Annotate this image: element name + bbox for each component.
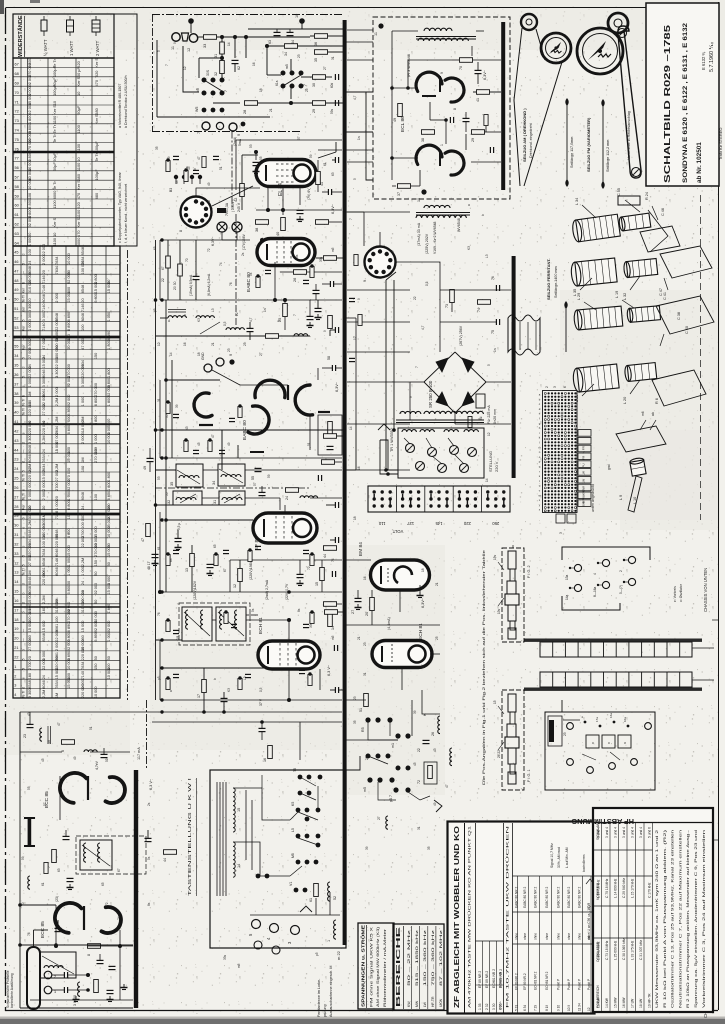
- capacitor 62: [232, 59, 239, 61]
- parts list header WIDERSTAENDE: [13, 14, 114, 58]
- resistor 41: [316, 172, 321, 185]
- svg-text:2 000: 2 000: [42, 491, 46, 501]
- resistor symbol 1 WATT: [69, 16, 71, 20]
- chassis side view upper: [524, 639, 702, 642]
- trimmer caps: [259, 491, 266, 493]
- svg-text:22: 22: [14, 655, 18, 659]
- svg-text:69: 69: [15, 81, 19, 86]
- svg-text:a: a: [169, 690, 173, 692]
- wire: [159, 640, 161, 700]
- svg-text:13v: 13v: [497, 608, 501, 614]
- svg-text:5: 5: [157, 50, 161, 52]
- svg-text:1 000: 1 000: [81, 397, 85, 407]
- svg-text:Für 225 mA: Für 225 mA: [487, 405, 491, 424]
- svg-text:220 000: 220 000: [81, 364, 85, 378]
- svg-text:59: 59: [21, 856, 25, 860]
- svg-text:BEREICHE: BEREICHE: [396, 925, 402, 1007]
- svg-text:5s: 5s: [251, 608, 255, 612]
- wire: [221, 232, 223, 240]
- resistor: [184, 171, 188, 182]
- svg-text:EL 84: EL 84: [278, 183, 284, 196]
- svg-text:Seillänge 112,2 mm: Seillänge 112,2 mm: [606, 140, 610, 172]
- svg-text:1 WATT: 1 WATT: [69, 40, 74, 56]
- capacitor 27c: [355, 597, 362, 599]
- wire: [19, 712, 21, 770]
- svg-text:ECH81 NR 2: ECH81 NR 2: [492, 969, 496, 988]
- capacitor: [229, 417, 235, 419]
- junction dots: [266, 208, 270, 212]
- svg-text:10 000: 10 000: [67, 253, 71, 265]
- svg-text:UKW: UKW: [439, 998, 443, 1007]
- band switch row: [250, 914, 340, 916]
- schematic dash frame: [152, 14, 344, 16]
- svg-text:T5: T5: [293, 768, 297, 772]
- svg-text:62: 62: [237, 66, 241, 70]
- svg-text:Ker S: Ker S: [94, 58, 99, 68]
- svg-text:33s: 33s: [319, 256, 323, 262]
- svg-text:Ker: Ker: [22, 306, 26, 312]
- svg-text:6,3 V~: 6,3 V~: [149, 778, 153, 790]
- svg-text:WIDERSTÄNDE: WIDERSTÄNDE: [17, 15, 24, 57]
- svg-text:8—16a: 8—16a: [593, 586, 597, 597]
- svg-text:5 31: 5 31: [515, 1005, 519, 1011]
- svg-text:47: 47: [445, 784, 449, 788]
- svg-text:E 6132 ⅙: E 6132 ⅙: [701, 52, 706, 71]
- svg-text:100: 100: [27, 192, 32, 199]
- svg-text:16 MW: 16 MW: [622, 997, 626, 1008]
- capacitor 21: [259, 727, 266, 729]
- svg-text:24: 24: [42, 449, 46, 453]
- wire: [288, 669, 290, 700]
- svg-text:37 V: 37 V: [259, 698, 263, 706]
- svg-text:Te Tr: Te Tr: [52, 181, 57, 190]
- svg-text:47: 47: [14, 269, 18, 273]
- coil assembly L35 L32 C47: [570, 258, 617, 287]
- resistor 61: [314, 884, 319, 897]
- svg-text:ECH 81: ECH 81: [418, 623, 424, 640]
- svg-text:L3: L3: [485, 254, 489, 258]
- tuner contact dots: [256, 874, 261, 879]
- resistor 29b: [472, 130, 485, 135]
- wire drop from node: [234, 37, 236, 58]
- svg-text:b: b: [22, 593, 26, 595]
- pentode EF89: [253, 513, 317, 543]
- svg-text:27: 27: [421, 664, 425, 668]
- FIG2 leaders: [498, 562, 504, 570]
- svg-text:22 000: 22 000: [42, 658, 46, 670]
- svg-text:Ker: Ker: [22, 344, 26, 350]
- svg-text:14a: 14a: [565, 594, 569, 600]
- svg-text:b: b: [22, 282, 26, 284]
- svg-text:0,5: 0,5: [223, 321, 227, 326]
- svg-text:10 000: 10 000: [107, 668, 111, 680]
- svg-text:32: 32: [167, 500, 171, 504]
- svg-text:ECL 86: ECL 86: [400, 116, 406, 132]
- svg-text:100: 100: [55, 616, 59, 622]
- tuner dots: [18, 943, 22, 947]
- resistor 38b: [422, 130, 435, 135]
- wire horizontal y430: [156, 429, 344, 431]
- svg-text:3 300: 3 300: [42, 378, 46, 388]
- svg-text:1 35: 1 35: [478, 1003, 482, 1010]
- svg-text:kontrollierte Ausführung: kontrollierte Ausführung: [10, 973, 14, 1008]
- power feed vertical wires: [385, 280, 387, 470]
- notes column: [114, 14, 137, 246]
- svg-text:23: 23: [297, 54, 301, 58]
- svg-text:110: 110: [378, 521, 385, 526]
- svg-text:0,5: 0,5: [259, 687, 263, 692]
- svg-text:19: 19: [176, 636, 180, 640]
- svg-text:unten angedrückt: unten angedrückt: [591, 484, 595, 512]
- svg-text:ECH 81: ECH 81: [258, 617, 264, 634]
- resistor 73: [450, 290, 455, 303]
- svg-text:2,2M: 2,2M: [81, 558, 85, 566]
- svg-text:1100: 1100: [76, 162, 81, 171]
- coil assembly L29 L19 C41 C38 C40: [573, 306, 622, 330]
- svg-text:C 55: C 55: [617, 188, 621, 196]
- svg-text:1 000: 1 000: [55, 500, 59, 510]
- wire: [245, 497, 280, 499]
- svg-text:7146: 7146: [42, 275, 46, 283]
- svg-text:(267V) 256V: (267V) 256V: [459, 325, 463, 346]
- svg-text:SPANNUNGEN u. STRÖME: SPANNUNGEN u. STRÖME: [361, 925, 366, 1007]
- wire: [299, 187, 301, 205]
- svg-text:14: 14: [349, 426, 353, 430]
- svg-text:49: 49: [393, 118, 397, 122]
- svg-text:43: 43: [185, 426, 189, 430]
- svg-text:10 000: 10 000: [94, 686, 98, 698]
- resistor 16: [268, 746, 273, 759]
- svg-text:9 10: 9 10: [557, 1005, 561, 1011]
- svg-text:Ker S: Ker S: [52, 105, 57, 115]
- wire: [401, 668, 403, 690]
- capacitor: [303, 279, 309, 281]
- svg-text:ECH81 NR 2: ECH81 NR 2: [545, 971, 549, 990]
- wire R28 right: [258, 102, 343, 104]
- resistor 14: [328, 614, 333, 627]
- svg-text:50: 50: [107, 562, 111, 566]
- svg-text:d: d: [22, 602, 26, 604]
- svg-text:TR 1 WV5552: TR 1 WV5552: [390, 428, 394, 452]
- svg-text:5: 5: [22, 668, 26, 670]
- svg-text:55: 55: [165, 492, 169, 496]
- svg-text:20: 20: [42, 270, 46, 274]
- svg-text:56: 56: [15, 165, 19, 170]
- wire: [246, 614, 258, 616]
- wire: [55, 905, 57, 945]
- svg-text:680: 680: [94, 107, 99, 114]
- svg-text:1: 1: [54, 990, 56, 994]
- svg-text:16: 16: [263, 758, 267, 762]
- wire: [346, 211, 364, 213]
- svg-text:73: 73: [445, 304, 449, 308]
- capacitor 51b: [315, 307, 322, 309]
- svg-text:5—(?): 5—(?): [619, 585, 623, 594]
- wire: [440, 289, 511, 291]
- resistor 23b: [328, 316, 333, 329]
- svg-text:50: 50: [107, 656, 111, 660]
- svg-text:220: 220: [463, 521, 471, 526]
- svg-text:2 000: 2 000: [81, 434, 85, 444]
- wire: [20, 711, 342, 713]
- wire: [59, 776, 61, 820]
- svg-text:18: 18: [259, 88, 263, 92]
- capacitor 75: [495, 285, 497, 291]
- IF transformer box 31: [219, 491, 245, 505]
- wire: [346, 624, 440, 626]
- svg-text:7140: 7140: [81, 671, 85, 679]
- svg-text:16: 16: [363, 576, 367, 580]
- coil core a: [168, 311, 186, 313]
- contact cluster extra right2: [396, 766, 401, 771]
- svg-text:7634: 7634: [42, 454, 46, 462]
- svg-text:22: 22: [417, 748, 421, 752]
- triode ECC85 a: [60, 773, 87, 803]
- svg-text:Ker: Ker: [22, 287, 26, 293]
- svg-text:2 000: 2 000: [55, 387, 59, 397]
- capacitor: [349, 297, 355, 299]
- svg-text:38: 38: [255, 228, 259, 232]
- resistor 39: [316, 220, 329, 225]
- resistor 42: [240, 184, 245, 197]
- svg-text:b: b: [193, 168, 197, 170]
- svg-text:20: 20: [14, 637, 18, 641]
- resistor symbol 1/2 WATT: [43, 16, 45, 20]
- svg-text:11: 11: [171, 46, 175, 50]
- svg-text:49: 49: [73, 756, 77, 760]
- svg-text:61s: 61s: [275, 80, 279, 86]
- svg-text:61: 61: [157, 546, 161, 550]
- svg-text:44: 44: [14, 448, 18, 452]
- svg-text:92 000: 92 000: [94, 583, 98, 595]
- svg-text:59: 59: [267, 474, 271, 478]
- svg-text:ohne: ohne: [578, 933, 582, 940]
- svg-text:2 000: 2 000: [42, 255, 46, 265]
- coil arrow: [200, 322, 220, 334]
- svg-text:39: 39: [413, 710, 417, 714]
- coil box tuner 2: [40, 952, 76, 978]
- resistor: [358, 315, 362, 326]
- svg-text:10 000: 10 000: [107, 432, 111, 444]
- svg-text:73: 73: [15, 118, 19, 123]
- svg-text:53: 53: [105, 758, 109, 762]
- svg-text:54: 54: [14, 335, 18, 339]
- svg-text:17: 17: [14, 608, 18, 612]
- svg-text:4,7eV: 4,7eV: [95, 760, 99, 770]
- svg-text:67: 67: [161, 266, 165, 270]
- junction dots: [273, 298, 277, 302]
- chassis von oben view: [561, 700, 563, 712]
- svg-text:7634: 7634: [55, 256, 59, 264]
- svg-text:27 000: 27 000: [28, 347, 32, 359]
- dash frame extension: [235, 214, 237, 330]
- capacitor: [173, 629, 179, 631]
- svg-text:72: 72: [105, 902, 109, 906]
- junction dot row: [154, 298, 158, 302]
- transformer TR1 secondary: [400, 411, 421, 414]
- svg-text:4,7: 4,7: [249, 317, 253, 322]
- wire: [284, 505, 286, 513]
- svg-text:2 32: 2 32: [485, 1003, 489, 1010]
- svg-text:5: 5: [22, 263, 26, 265]
- svg-text:6 890: 6 890: [67, 623, 71, 633]
- svg-text:45: 45: [41, 758, 45, 762]
- power box dash frame: [373, 17, 510, 199]
- svg-text:5 und 6: 5 und 6: [648, 827, 652, 838]
- bottom scan band: [0, 1017, 725, 1019]
- svg-text:e: e: [22, 677, 26, 679]
- svg-text:24: 24: [285, 496, 289, 500]
- svg-text:K3: K3: [227, 688, 231, 692]
- capacitor 65b: [449, 117, 451, 123]
- svg-text:½ WATT: ½ WATT: [43, 39, 48, 56]
- wire: [30, 999, 133, 1001]
- dash frame around EL84 area: [231, 132, 233, 211]
- svg-text:L 33 175 kHz: L 33 175 kHz: [631, 940, 635, 960]
- resistor 44: [324, 546, 337, 551]
- svg-text:7146: 7146: [81, 304, 85, 312]
- svg-text:(23): (23): [55, 896, 59, 902]
- svg-text:1M: 1M: [28, 570, 32, 575]
- svg-text:3 300: 3 300: [28, 312, 32, 322]
- svg-text:8: 8: [453, 108, 457, 110]
- svg-text:61: 61: [41, 882, 45, 886]
- switch contacts K5: [296, 808, 301, 813]
- chassis bus main: [343, 20, 347, 945]
- svg-text:ohne: ohne: [515, 933, 519, 940]
- svg-text:F I G. 2: F I G. 2: [527, 565, 531, 578]
- svg-text:270 000: 270 000: [94, 543, 98, 557]
- svg-text:100: 100: [81, 325, 85, 331]
- triple diode EABC80 tube: [257, 239, 315, 266]
- svg-text:16: 16: [14, 599, 18, 603]
- svg-text:22 000: 22 000: [81, 536, 85, 548]
- svg-text:6 800: 6 800: [107, 491, 111, 501]
- svg-text:d: d: [22, 254, 26, 256]
- svg-text:m 22: m 22: [336, 950, 341, 960]
- svg-text:Punkt P: Punkt P: [567, 979, 571, 990]
- corner smudge: [0, 0, 4, 14]
- svg-text:65: 65: [101, 882, 105, 886]
- resistor 40: [281, 218, 286, 231]
- capacitor 45: [331, 571, 333, 577]
- svg-text:Punkt P: Punkt P: [557, 979, 561, 990]
- svg-text:VOLT: VOLT: [392, 529, 403, 534]
- svg-text:e: e: [22, 432, 26, 434]
- svg-text:POS L: POS L: [498, 1001, 502, 1010]
- svg-text:8046: 8046: [28, 577, 32, 585]
- svg-text:W5: W5: [195, 107, 199, 112]
- coil 0000 a: [168, 316, 186, 318]
- svg-text:(37mA) 33 mA: (37mA) 33 mA: [417, 222, 421, 246]
- svg-text:27: 27: [323, 66, 327, 70]
- svg-text:36: 36: [14, 373, 18, 377]
- border frame top: [6, 7, 701, 9]
- seil arrow ferrit: [561, 258, 563, 296]
- svg-text:470: 470: [94, 79, 99, 86]
- svg-text:20: 20: [28, 298, 32, 302]
- svg-text:18: 18: [14, 618, 18, 622]
- svg-text:270 000: 270 000: [94, 449, 98, 463]
- svg-text:12: 12: [353, 336, 357, 340]
- chassis oben circles: [567, 723, 574, 730]
- ZF sub table 2 column dividers: [513, 875, 595, 877]
- svg-text:15 000: 15 000: [67, 545, 71, 557]
- bottom wire along y1008: [20, 1007, 133, 1009]
- svg-text:5: 5: [353, 178, 357, 180]
- svg-text:ECH81 NR 2: ECH81 NR 2: [534, 971, 538, 990]
- capacitor 58: [331, 365, 333, 371]
- resistor: [202, 157, 206, 168]
- svg-text:50: 50: [94, 600, 98, 604]
- svg-text:AM ohne Signal MW 600kHz (K3): AM ohne Signal MW 600kHz (K3): [376, 927, 380, 1007]
- wire y470 gap fill: [156, 469, 177, 471]
- svg-text:160: 160: [28, 673, 32, 679]
- svg-text:10 000: 10 000: [27, 177, 32, 190]
- junction dots: [244, 35, 248, 39]
- capacitor: [299, 669, 305, 671]
- svg-text:31: 31: [157, 398, 161, 402]
- svg-text:R 2 10kΩ an Plusspannung anlö: R 2 10kΩ an Plusspannung anlöten. Messen…: [686, 829, 690, 1008]
- svg-text:30: 30: [14, 524, 18, 528]
- resistor 34: [285, 44, 298, 49]
- svg-text:25: 25: [305, 88, 309, 92]
- svg-text:5mA: 5mA: [238, 138, 242, 146]
- svg-text:22: 22: [235, 312, 239, 316]
- switch contacts L5: [296, 834, 301, 839]
- resistor: [208, 441, 212, 452]
- svg-text:220 000: 220 000: [81, 647, 85, 661]
- svg-text:24: 24: [42, 675, 46, 679]
- svg-text:3 und 4: 3 und 4: [639, 827, 643, 838]
- svg-text:46: 46: [14, 260, 18, 264]
- svg-text:c Doppelpotentiometer, Typ VAG: c Doppelpotentiometer, Typ VAG, 940, lin…: [118, 171, 122, 243]
- capacitor 65: [297, 209, 304, 211]
- svg-text:2,2M: 2,2M: [42, 435, 46, 443]
- resistor 20: [146, 524, 151, 537]
- svg-text:Trafo für STEREO: Trafo für STEREO: [718, 127, 723, 160]
- svg-text:EF 89 NR.2: EF 89 NR.2: [485, 971, 489, 988]
- wire: [399, 590, 401, 612]
- svg-text:75: 75: [15, 137, 19, 142]
- svg-text:21: 21: [357, 636, 361, 640]
- seil arrow AM: [566, 103, 568, 183]
- EABC80b extra bars: [250, 451, 264, 453]
- svg-text:41: 41: [320, 182, 324, 186]
- svg-text:LW: LW: [582, 471, 586, 475]
- coil right zone: [450, 748, 452, 766]
- seil arrow FM: [602, 104, 604, 185]
- svg-text:e: e: [22, 489, 26, 491]
- resistor: [166, 403, 170, 414]
- svg-text:15 000: 15 000: [28, 621, 32, 633]
- svg-text:24: 24: [28, 336, 32, 340]
- capacitor 46: [297, 573, 304, 575]
- svg-text:13a: 13a: [565, 574, 569, 580]
- svg-text:49: 49: [433, 802, 437, 806]
- resistor 7: [52, 850, 57, 863]
- capacitor near bus y700: [334, 687, 336, 693]
- svg-text:27 000: 27 000: [28, 555, 32, 567]
- svg-text:5.7.1960 ⅒: 5.7.1960 ⅒: [709, 42, 715, 72]
- svg-text:41: 41: [14, 420, 18, 424]
- resistor 41b: [477, 90, 490, 95]
- svg-text:1 800: 1 800: [107, 397, 111, 407]
- svg-text:1 000: 1 000: [27, 236, 32, 247]
- wire: [346, 149, 373, 151]
- svg-text:m5: m5: [237, 963, 241, 968]
- resistor: [166, 161, 170, 172]
